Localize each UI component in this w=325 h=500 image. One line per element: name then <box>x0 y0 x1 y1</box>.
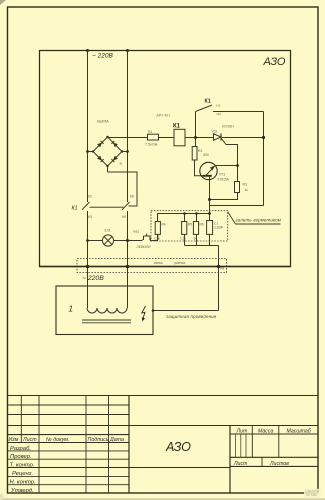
svg-text:Масштаб: Масштаб <box>287 428 312 434</box>
svg-text:2,2мФ: 2,2мФ <box>214 226 224 230</box>
svg-text:Разраб.: Разраб. <box>10 446 31 452</box>
svg-text:К1: К1 <box>173 123 181 129</box>
svg-text:АЗО: АЗО <box>263 56 286 68</box>
svg-text:К1: К1 <box>205 99 211 105</box>
svg-text:№ докум.: № докум. <box>46 437 69 443</box>
svg-text:вилка: вилка <box>154 261 163 265</box>
svg-text:залить герметиком: залить герметиком <box>235 218 282 223</box>
svg-text:Н1: Н1 <box>217 104 221 108</box>
svg-text:~ 220В: ~ 220В <box>82 275 104 282</box>
svg-text:ПВ: ПВ <box>220 267 224 271</box>
svg-text:Т. контр.: Т. контр. <box>10 462 35 468</box>
svg-text:R2: R2 <box>198 149 202 153</box>
svg-text:ЛЕВОЛЯ: ЛЕВОЛЯ <box>136 245 152 249</box>
svg-text:Н. контр.: Н. контр. <box>10 480 36 486</box>
svg-text:х): х) <box>120 162 123 166</box>
svg-text:R4: R4 <box>162 223 166 227</box>
svg-text:1,5к: 1,5к <box>180 237 186 241</box>
svg-text:Лист: Лист <box>233 461 248 467</box>
svg-text:7,5кОм: 7,5кОм <box>145 142 158 146</box>
svg-text:Н3: Н3 <box>88 215 92 219</box>
svg-text:защитная проведение: защитная проведение <box>165 314 217 319</box>
svg-text:АЗО: АЗО <box>165 440 191 454</box>
svg-text:НО: НО <box>217 112 222 116</box>
svg-text:АРУ-М 1: АРУ-М 1 <box>157 113 171 117</box>
svg-text:Ба1: Ба1 <box>134 230 140 234</box>
svg-text:КТ815А: КТ815А <box>218 178 230 182</box>
svg-text:Н5: Н5 <box>122 215 126 219</box>
svg-text:розетка: розетка <box>174 261 186 265</box>
svg-text:Масса: Масса <box>258 428 273 434</box>
svg-text:ЕЛ1: ЕЛ1 <box>105 229 111 233</box>
svg-text:К1: К1 <box>72 206 78 212</box>
svg-text:КУ202Н: КУ202Н <box>222 125 234 129</box>
svg-text:Изм: Изм <box>9 437 19 443</box>
svg-text:КЦ405А: КЦ405А <box>97 120 110 124</box>
svg-text:1: 1 <box>69 305 73 314</box>
svg-text:Листов: Листов <box>269 461 289 467</box>
svg-text:VT1: VT1 <box>219 173 225 177</box>
svg-text:Утверд.: Утверд. <box>10 488 34 494</box>
svg-text:~ 220В: ~ 220В <box>92 53 113 60</box>
svg-text:Реценз.: Реценз. <box>12 471 33 477</box>
svg-text:820: 820 <box>204 153 210 157</box>
svg-text:Лист: Лист <box>22 437 37 443</box>
svg-text:К3: К3 <box>88 195 92 199</box>
svg-text:Дата: Дата <box>109 437 124 443</box>
svg-text:R5: R5 <box>188 223 192 227</box>
svg-text:Провер.: Провер. <box>10 454 32 460</box>
svg-text:Лит: Лит <box>236 428 248 434</box>
svg-text:R3: R3 <box>243 183 247 187</box>
svg-text:Подпись: Подпись <box>88 437 109 443</box>
svg-text:R1: R1 <box>148 130 152 134</box>
svg-text:1,5к: 1,5к <box>154 237 160 241</box>
svg-text:VD1: VD1 <box>212 130 218 134</box>
svg-text:R6: R6 <box>200 223 204 227</box>
svg-text:на fotki: на fotki <box>306 493 317 497</box>
svg-text:К8: К8 <box>130 195 134 199</box>
